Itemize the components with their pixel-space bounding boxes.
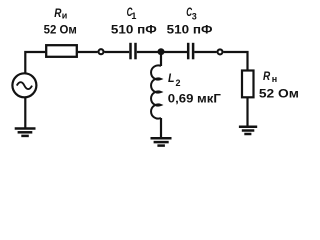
wire terminal to resistor Rн	[224, 52, 248, 71]
svg-text:и: и	[62, 10, 68, 20]
capacitor C1	[131, 43, 136, 60]
capacitor C3	[188, 43, 193, 60]
svg-text:52 Ом: 52 Ом	[44, 23, 77, 37]
svg-text:52 Ом: 52 Ом	[259, 87, 299, 101]
svg-text:0,69 мкГ: 0,69 мкГ	[168, 91, 221, 105]
wire node to L2	[160, 52, 162, 66]
AC source G1	[12, 73, 36, 97]
output terminal	[218, 49, 223, 54]
wire terminal to C1	[105, 51, 130, 53]
input terminal	[99, 49, 104, 54]
wire Rн to ground	[246, 97, 248, 126]
ground (L2)	[151, 138, 172, 145]
wire node to C3	[161, 51, 187, 53]
inductor L2	[151, 65, 161, 118]
resistor Rи	[46, 45, 77, 57]
resistor Rн	[242, 71, 254, 98]
wire C1 to node	[137, 51, 161, 53]
svg-text:L: L	[168, 71, 175, 85]
svg-text:1: 1	[131, 11, 136, 21]
ground (source)	[15, 129, 36, 136]
svg-text:510 пФ: 510 пФ	[111, 22, 157, 36]
wire C3 to output terminal	[194, 51, 216, 53]
svg-text:R: R	[263, 71, 271, 83]
ground (Rн)	[239, 127, 257, 134]
svg-text:2: 2	[176, 78, 181, 88]
wire Rи to input terminal	[78, 51, 98, 53]
wire source to ground	[24, 97, 26, 128]
wire L2 to ground	[160, 118, 162, 138]
wire source to resistor Rи	[25, 52, 45, 73]
svg-text:510 пФ: 510 пФ	[167, 22, 213, 36]
junction node	[158, 48, 165, 55]
svg-text:3: 3	[192, 12, 197, 22]
svg-text:н: н	[272, 74, 277, 84]
